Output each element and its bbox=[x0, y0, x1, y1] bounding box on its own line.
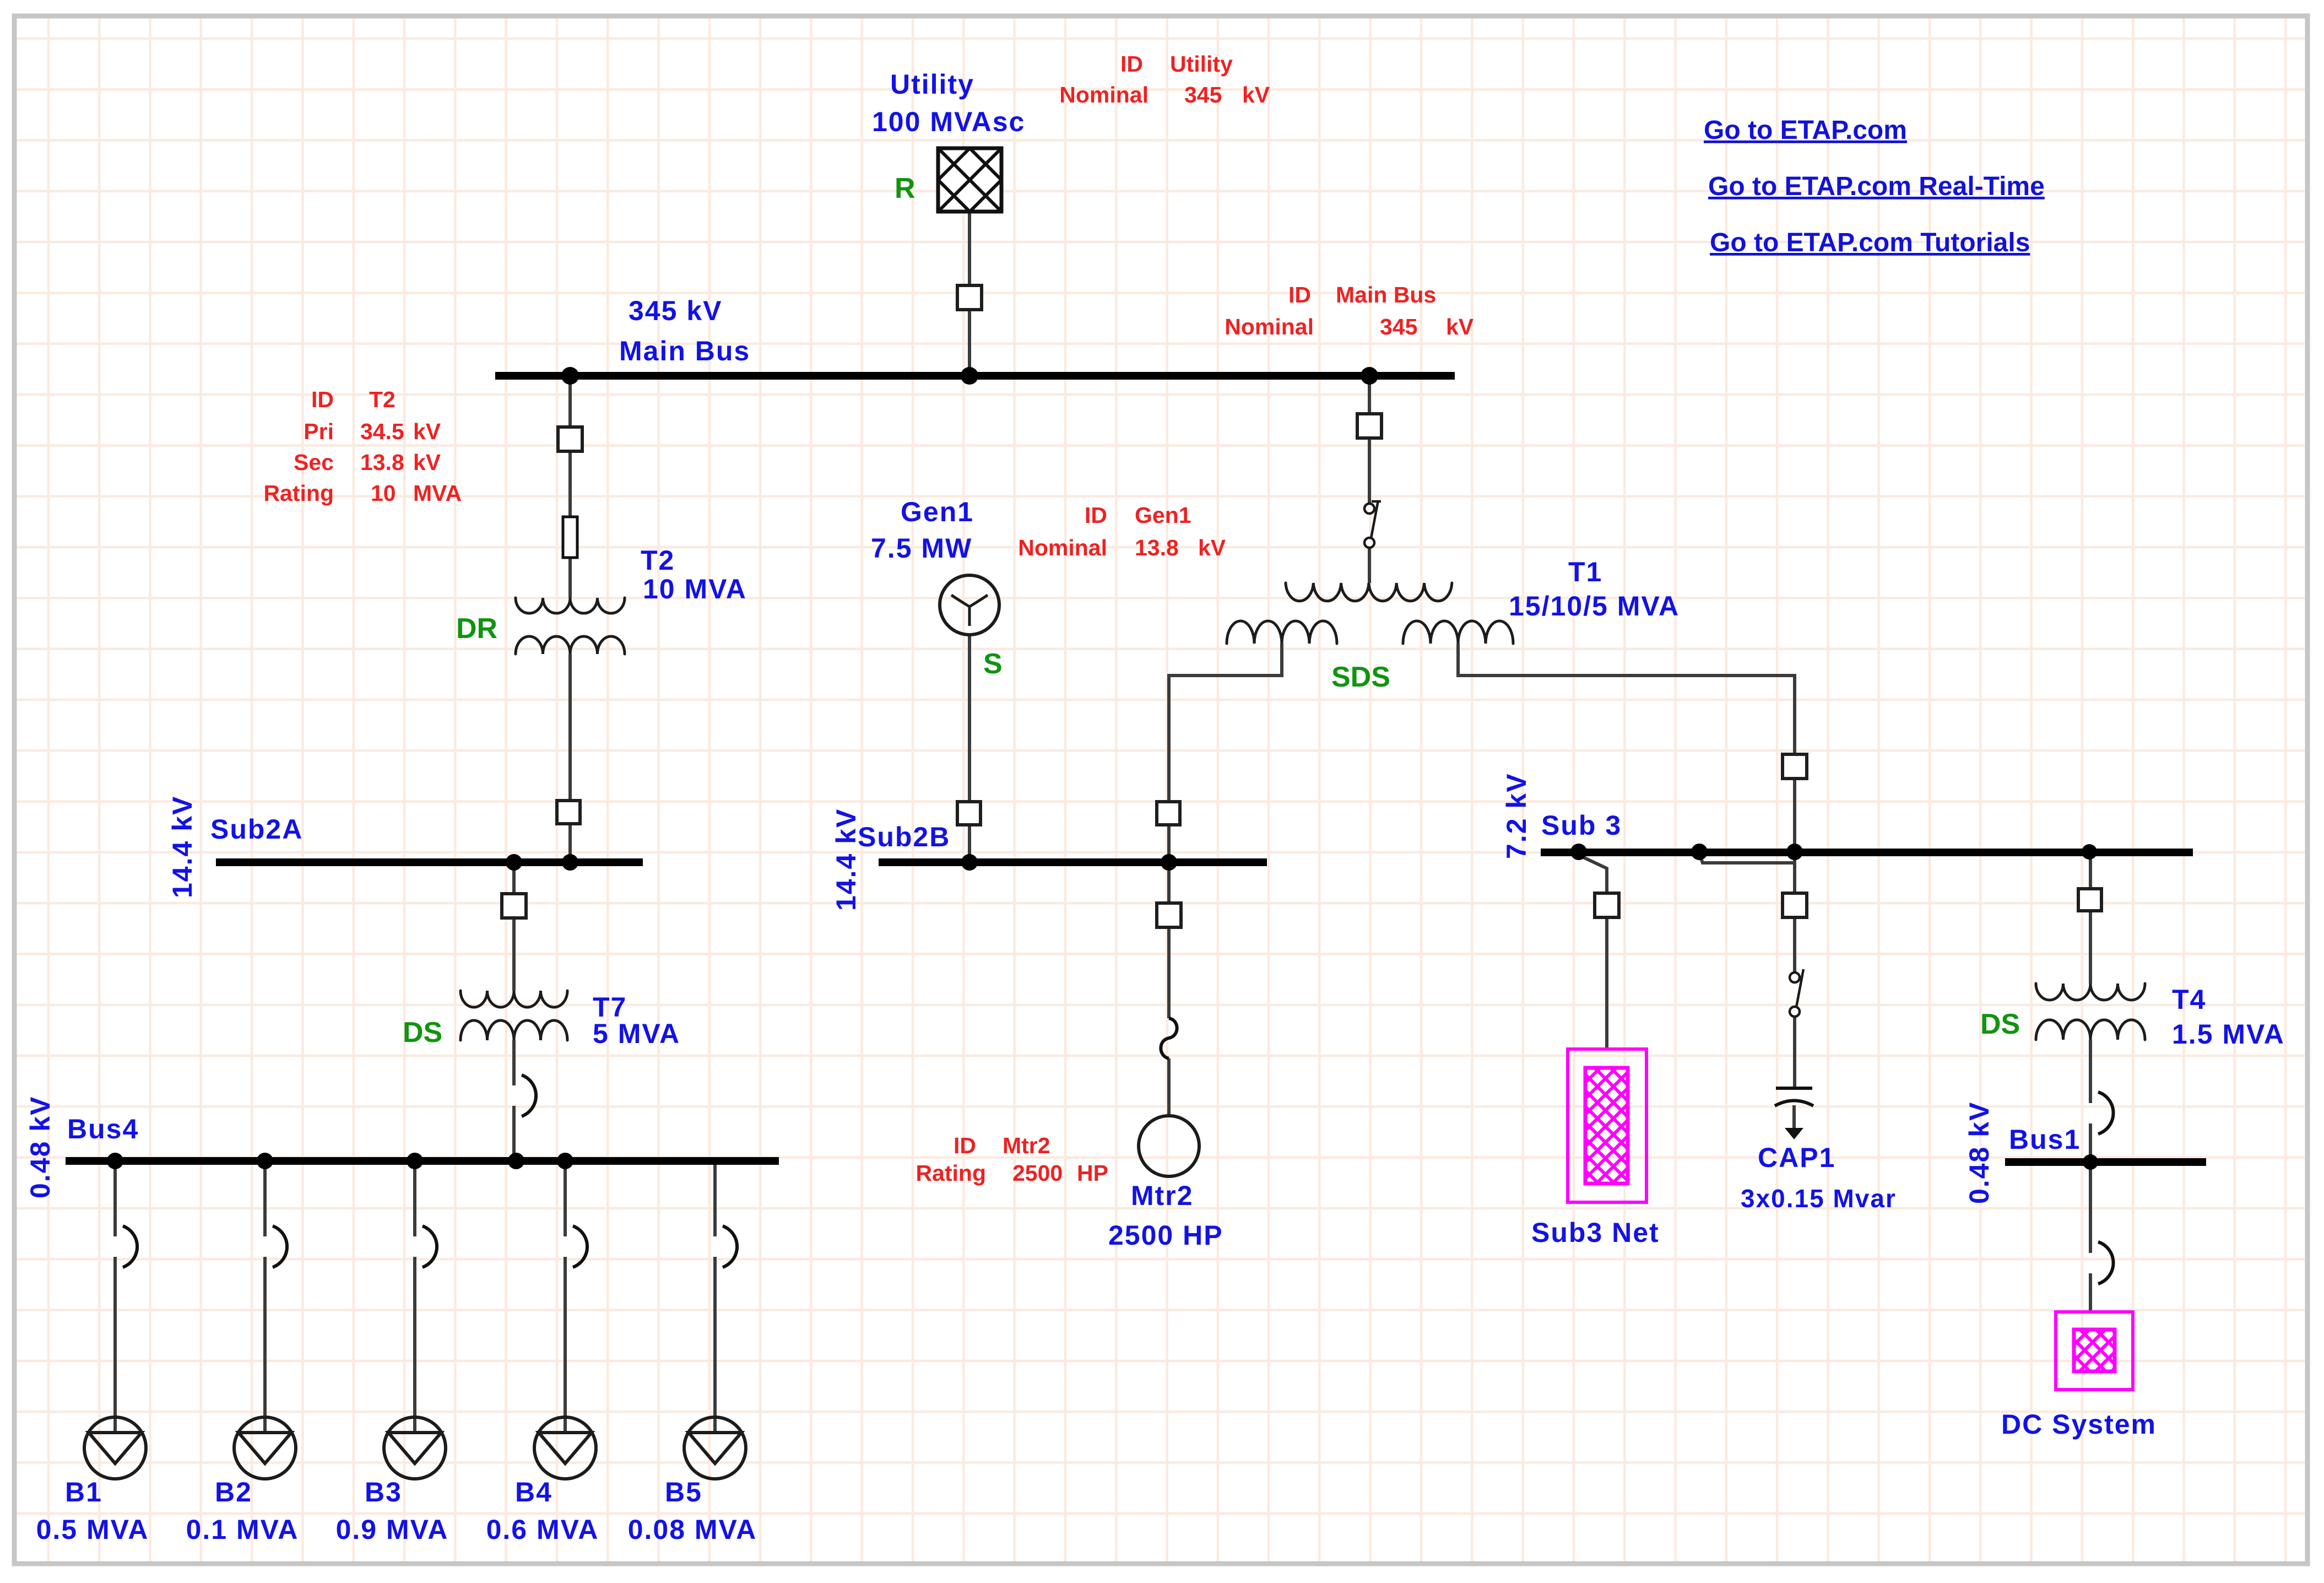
svg-text:7.5 MW: 7.5 MW bbox=[871, 533, 972, 564]
svg-text:Sub2B: Sub2B bbox=[858, 822, 950, 852]
svg-text:DS: DS bbox=[1980, 1008, 2020, 1040]
svg-text:13.8: 13.8 bbox=[360, 450, 404, 475]
svg-text:0.6 MVA: 0.6 MVA bbox=[486, 1514, 599, 1545]
svg-text:Go to ETAP.com: Go to ETAP.com bbox=[1704, 116, 1907, 145]
svg-text:ID: ID bbox=[311, 387, 334, 412]
svg-text:0.08 MVA: 0.08 MVA bbox=[628, 1514, 757, 1545]
svg-text:Mtr2: Mtr2 bbox=[1003, 1133, 1050, 1158]
svg-text:Pri: Pri bbox=[304, 419, 334, 444]
svg-text:ID: ID bbox=[1288, 282, 1311, 307]
svg-text:Go to ETAP.com Tutorials: Go to ETAP.com Tutorials bbox=[1710, 228, 2030, 257]
svg-text:B2: B2 bbox=[215, 1477, 252, 1508]
svg-text:0.48 kV: 0.48 kV bbox=[25, 1096, 56, 1198]
svg-text:kV: kV bbox=[413, 450, 441, 475]
svg-text:T2: T2 bbox=[641, 545, 675, 576]
svg-text:Sub 3: Sub 3 bbox=[1541, 810, 1622, 841]
svg-text:kV: kV bbox=[413, 419, 441, 444]
svg-text:0.48 kV: 0.48 kV bbox=[1964, 1101, 1995, 1204]
svg-text:ID: ID bbox=[954, 1133, 976, 1158]
svg-text:Rating: Rating bbox=[915, 1160, 986, 1186]
svg-text:15/10/5 MVA: 15/10/5 MVA bbox=[1509, 591, 1680, 622]
svg-text:0.1 MVA: 0.1 MVA bbox=[186, 1514, 299, 1545]
svg-text:kV: kV bbox=[1242, 82, 1270, 107]
svg-text:CAP1: CAP1 bbox=[1758, 1142, 1835, 1173]
svg-text:5 MVA: 5 MVA bbox=[593, 1018, 680, 1049]
svg-text:Gen1: Gen1 bbox=[1135, 503, 1191, 528]
svg-text:ID: ID bbox=[1120, 51, 1143, 77]
svg-text:345: 345 bbox=[1184, 82, 1222, 107]
svg-text:13.8: 13.8 bbox=[1135, 535, 1179, 560]
svg-text:T1: T1 bbox=[1568, 557, 1602, 587]
svg-text:10: 10 bbox=[371, 480, 396, 506]
svg-text:B1: B1 bbox=[65, 1477, 102, 1508]
svg-text:Nominal: Nominal bbox=[1018, 535, 1107, 560]
svg-text:Utility: Utility bbox=[890, 69, 974, 100]
svg-text:B4: B4 bbox=[515, 1477, 552, 1508]
svg-text:Sub2A: Sub2A bbox=[210, 814, 303, 845]
svg-text:Main Bus: Main Bus bbox=[1336, 282, 1436, 307]
svg-text:Sub3 Net: Sub3 Net bbox=[1531, 1217, 1660, 1248]
svg-text:Sec: Sec bbox=[294, 450, 334, 475]
svg-text:Mtr2: Mtr2 bbox=[1131, 1180, 1194, 1211]
svg-text:kV: kV bbox=[1446, 314, 1474, 339]
svg-text:Rating: Rating bbox=[263, 480, 334, 506]
svg-text:3x0.15 Mvar: 3x0.15 Mvar bbox=[1741, 1184, 1897, 1213]
svg-text:R: R bbox=[895, 172, 915, 204]
svg-text:Go to ETAP.com Real-Time: Go to ETAP.com Real-Time bbox=[1708, 172, 2045, 201]
svg-text:DR: DR bbox=[456, 613, 497, 645]
svg-text:Bus1: Bus1 bbox=[2009, 1124, 2081, 1155]
svg-text:0.5 MVA: 0.5 MVA bbox=[36, 1514, 149, 1545]
svg-text:2500 HP: 2500 HP bbox=[1108, 1220, 1223, 1251]
svg-text:7.2 kV: 7.2 kV bbox=[1501, 772, 1532, 859]
svg-text:DS: DS bbox=[403, 1017, 442, 1049]
svg-text:14.4 kV: 14.4 kV bbox=[167, 796, 198, 898]
svg-text:10 MVA: 10 MVA bbox=[643, 574, 747, 604]
svg-text:345: 345 bbox=[1380, 314, 1417, 339]
svg-text:ID: ID bbox=[1085, 503, 1107, 528]
svg-text:100 MVAsc: 100 MVAsc bbox=[872, 106, 1025, 137]
svg-text:SDS: SDS bbox=[1331, 661, 1390, 693]
svg-text:Main Bus: Main Bus bbox=[619, 336, 750, 366]
svg-text:MVA: MVA bbox=[413, 480, 462, 506]
svg-text:Bus4: Bus4 bbox=[67, 1114, 139, 1144]
svg-text:1.5 MVA: 1.5 MVA bbox=[2172, 1019, 2285, 1050]
svg-text:345 kV: 345 kV bbox=[629, 295, 722, 326]
svg-text:T2: T2 bbox=[369, 387, 396, 412]
svg-text:DC System: DC System bbox=[2001, 1409, 2157, 1440]
svg-text:0.9 MVA: 0.9 MVA bbox=[336, 1514, 449, 1545]
svg-text:HP: HP bbox=[1077, 1160, 1108, 1186]
svg-text:S: S bbox=[983, 648, 1003, 680]
svg-text:14.4 kV: 14.4 kV bbox=[831, 808, 862, 911]
svg-text:34.5: 34.5 bbox=[360, 419, 404, 444]
svg-text:Nominal: Nominal bbox=[1225, 314, 1314, 339]
svg-text:T4: T4 bbox=[2172, 984, 2206, 1015]
svg-text:Nominal: Nominal bbox=[1059, 82, 1149, 107]
svg-text:Utility: Utility bbox=[1170, 51, 1233, 77]
svg-text:Gen1: Gen1 bbox=[901, 496, 974, 527]
svg-text:B5: B5 bbox=[665, 1477, 702, 1508]
svg-text:2500: 2500 bbox=[1012, 1160, 1063, 1186]
svg-text:B3: B3 bbox=[365, 1477, 402, 1508]
svg-text:kV: kV bbox=[1198, 535, 1226, 560]
